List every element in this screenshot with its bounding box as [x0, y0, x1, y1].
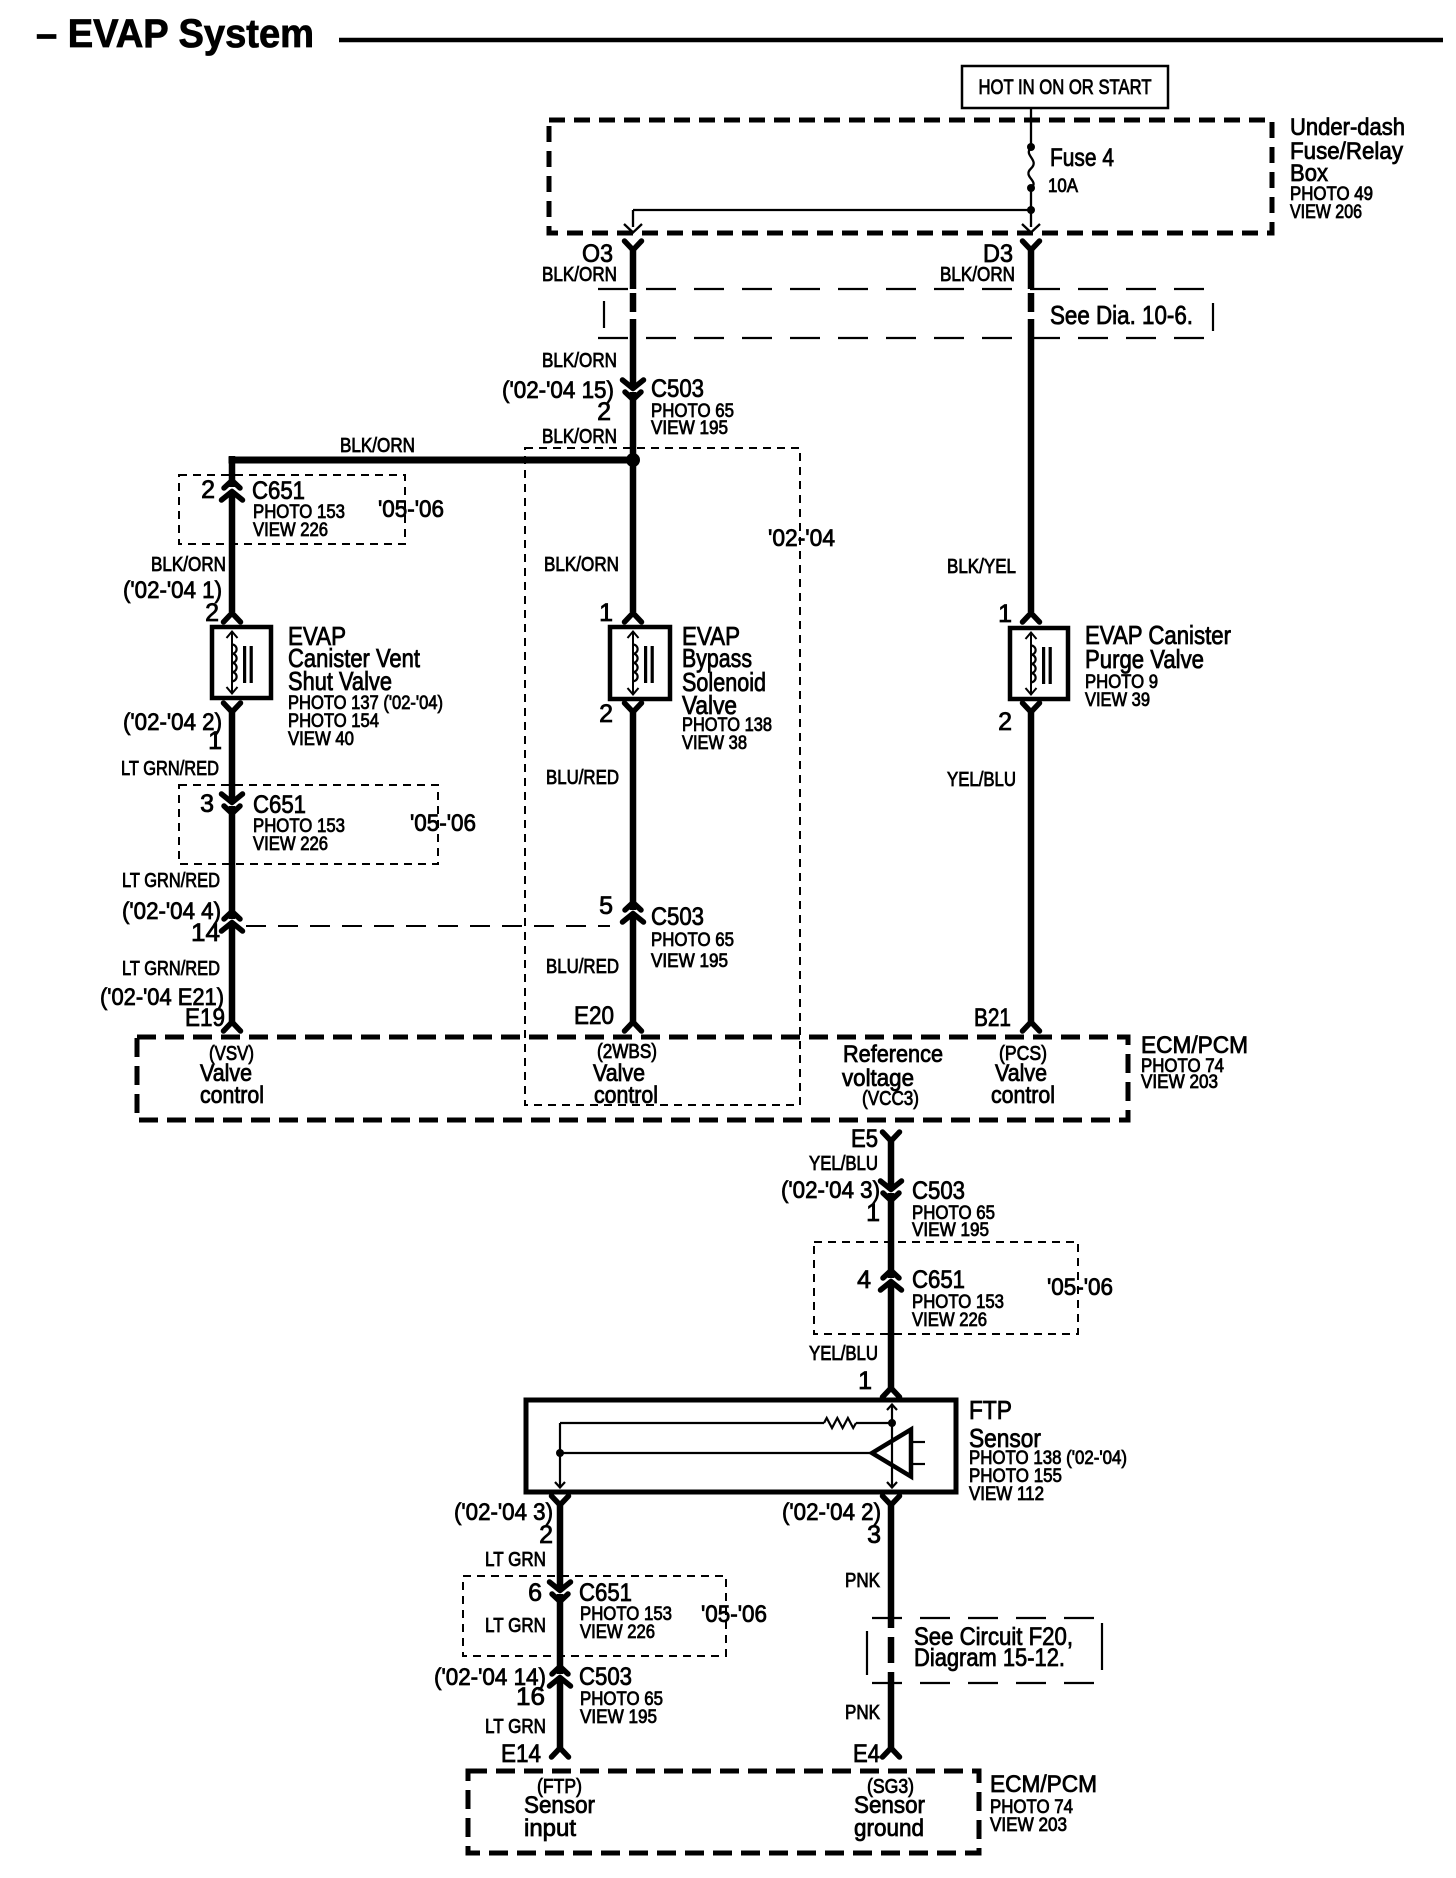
svg-text:LT GRN: LT GRN	[485, 1716, 546, 1738]
svg-text:Box: Box	[1290, 160, 1328, 187]
svg-text:'05-'06: '05-'06	[410, 810, 476, 837]
svg-text:C503: C503	[579, 1663, 632, 1691]
svg-text:ECM/PCM: ECM/PCM	[1141, 1032, 1248, 1059]
svg-text:VIEW 39: VIEW 39	[1085, 690, 1150, 711]
svg-text:'05-'06: '05-'06	[701, 1601, 767, 1628]
svg-text:BLK/ORN: BLK/ORN	[340, 435, 415, 457]
svg-text:'02-'04: '02-'04	[768, 525, 835, 552]
svg-text:2: 2	[539, 1521, 553, 1549]
svg-text:YEL/BLU: YEL/BLU	[809, 1153, 878, 1175]
svg-text:E19: E19	[185, 1004, 225, 1032]
svg-text:6: 6	[528, 1579, 542, 1607]
svg-text:ECM/PCM: ECM/PCM	[990, 1771, 1097, 1798]
svg-text:Purge Valve: Purge Valve	[1085, 644, 1204, 674]
svg-text:1: 1	[208, 727, 222, 755]
svg-text:– EVAP System: – EVAP System	[36, 12, 314, 56]
svg-text:VIEW 203: VIEW 203	[1141, 1072, 1218, 1093]
svg-text:B21: B21	[974, 1004, 1011, 1032]
svg-text:BLU/RED: BLU/RED	[546, 956, 619, 978]
svg-text:5: 5	[599, 892, 613, 920]
svg-text:PNK: PNK	[845, 1702, 881, 1724]
svg-text:VIEW 206: VIEW 206	[1290, 202, 1362, 223]
svg-text:Shut Valve: Shut Valve	[288, 666, 392, 696]
svg-text:VIEW 195: VIEW 195	[580, 1707, 657, 1728]
svg-text:3: 3	[200, 790, 214, 818]
svg-text:YEL/BLU: YEL/BLU	[947, 769, 1016, 791]
svg-text:BLU/RED: BLU/RED	[546, 767, 619, 789]
svg-text:VIEW 195: VIEW 195	[651, 418, 728, 439]
svg-text:YEL/BLU: YEL/BLU	[809, 1343, 878, 1365]
svg-text:C651: C651	[252, 477, 305, 505]
svg-text:2: 2	[599, 700, 613, 728]
svg-text:14: 14	[191, 919, 220, 947]
svg-text:2: 2	[998, 708, 1012, 736]
svg-text:VIEW 38: VIEW 38	[682, 733, 747, 754]
svg-text:HOT IN ON OR START: HOT IN ON OR START	[979, 76, 1152, 99]
svg-text:BLK/ORN: BLK/ORN	[940, 264, 1015, 286]
svg-text:LT GRN: LT GRN	[485, 1549, 546, 1571]
svg-text:VIEW 203: VIEW 203	[990, 1815, 1067, 1836]
svg-text:4: 4	[857, 1266, 871, 1294]
svg-text:BLK/ORN: BLK/ORN	[151, 554, 226, 576]
svg-text:FTP: FTP	[969, 1395, 1012, 1425]
svg-text:BLK/YEL: BLK/YEL	[947, 556, 1016, 578]
svg-text:PNK: PNK	[845, 1570, 881, 1592]
svg-text:'05-'06: '05-'06	[1047, 1274, 1113, 1301]
svg-text:E14: E14	[501, 1740, 541, 1768]
svg-text:Reference: Reference	[843, 1041, 943, 1068]
svg-text:PHOTO 65: PHOTO 65	[651, 930, 734, 951]
svg-text:'05-'06: '05-'06	[378, 496, 444, 523]
svg-text:2: 2	[205, 599, 219, 627]
svg-text:control: control	[594, 1082, 658, 1109]
svg-text:1: 1	[599, 599, 613, 627]
svg-text:E20: E20	[574, 1002, 614, 1030]
svg-text:VIEW 112: VIEW 112	[969, 1484, 1044, 1505]
svg-text:LT GRN/RED: LT GRN/RED	[121, 758, 219, 780]
svg-text:VIEW 195: VIEW 195	[651, 951, 728, 972]
svg-text:VIEW 226: VIEW 226	[580, 1622, 655, 1643]
svg-text:VIEW 226: VIEW 226	[253, 520, 328, 541]
svg-text:LT GRN/RED: LT GRN/RED	[122, 870, 220, 892]
svg-text:ground: ground	[854, 1815, 924, 1842]
svg-text:1: 1	[866, 1199, 880, 1227]
svg-text:(VCC3): (VCC3)	[862, 1088, 919, 1110]
svg-text:10A: 10A	[1048, 176, 1078, 197]
svg-text:Fuse 4: Fuse 4	[1050, 144, 1114, 172]
svg-text:LT GRN/RED: LT GRN/RED	[122, 958, 220, 980]
svg-text:See Dia. 10-6.: See Dia. 10-6.	[1050, 300, 1193, 330]
svg-text:C651: C651	[912, 1266, 965, 1294]
svg-text:BLK/ORN: BLK/ORN	[542, 426, 617, 448]
svg-text:C503: C503	[912, 1177, 965, 1205]
svg-text:Diagram 15-12.: Diagram 15-12.	[914, 1644, 1065, 1672]
svg-text:control: control	[991, 1082, 1055, 1109]
svg-text:control: control	[200, 1082, 264, 1109]
svg-text:BLK/ORN: BLK/ORN	[542, 264, 617, 286]
svg-text:LT GRN: LT GRN	[485, 1615, 546, 1637]
svg-text:C651: C651	[579, 1579, 632, 1607]
svg-text:VIEW 195: VIEW 195	[912, 1220, 989, 1241]
svg-text:VIEW 226: VIEW 226	[912, 1310, 987, 1331]
svg-text:VIEW 226: VIEW 226	[253, 834, 328, 855]
svg-text:1: 1	[998, 600, 1012, 628]
svg-text:BLK/ORN: BLK/ORN	[544, 554, 619, 576]
svg-text:C651: C651	[253, 791, 306, 819]
svg-text:Under-dash: Under-dash	[1290, 114, 1405, 141]
svg-text:1: 1	[858, 1367, 872, 1395]
svg-text:16: 16	[516, 1683, 545, 1711]
svg-text:2: 2	[597, 398, 611, 426]
svg-text:BLK/ORN: BLK/ORN	[542, 350, 617, 372]
svg-text:3: 3	[867, 1521, 881, 1549]
svg-text:input: input	[524, 1815, 576, 1842]
svg-text:E4: E4	[853, 1740, 880, 1768]
svg-text:C503: C503	[651, 375, 704, 403]
svg-text:E5: E5	[851, 1125, 878, 1153]
svg-text:C503: C503	[651, 903, 704, 931]
svg-text:VIEW 40: VIEW 40	[288, 729, 354, 750]
svg-text:2: 2	[201, 476, 215, 504]
